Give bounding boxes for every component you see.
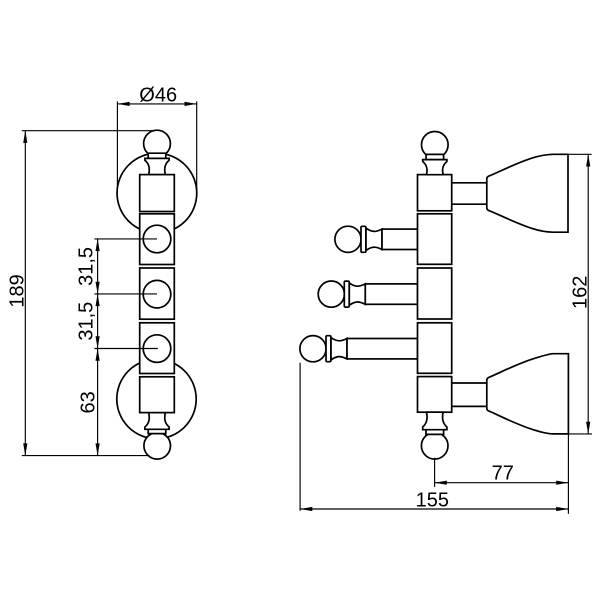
chain leader hook 2 xyxy=(94,293,157,295)
dim 162 extension line bottom xyxy=(568,433,592,435)
hook peg 1 neck xyxy=(366,228,382,250)
svg-text:Ø46: Ø46 xyxy=(139,85,177,107)
wall plate circle top xyxy=(117,153,197,233)
svg-text:31,5: 31,5 xyxy=(75,302,97,341)
side finial neck top xyxy=(423,160,447,175)
finial neck bottom xyxy=(145,413,169,430)
hook peg 1 stem xyxy=(382,229,418,249)
arrow 189 top xyxy=(23,131,27,143)
chain dimension line 31,5/31,5/63 xyxy=(97,239,99,456)
wall bracket top trumpet flange xyxy=(487,154,568,232)
finial collar bottom xyxy=(148,429,166,434)
dim 77/155 extension line right xyxy=(567,434,569,514)
wall bracket bottom stem xyxy=(452,383,488,406)
svg-text:162: 162 xyxy=(570,276,592,309)
rail segment 3 (hook square 2) xyxy=(140,268,175,319)
dim 162 extension line top xyxy=(568,153,592,155)
hook peg 3 bead xyxy=(326,336,331,362)
side rail segment 3 xyxy=(418,268,452,319)
dim Ø46 dimension line xyxy=(117,103,196,105)
dim 155 dimension line xyxy=(300,508,568,510)
dim 162 dimension line xyxy=(587,154,589,434)
hook boss circle 1 xyxy=(143,225,171,253)
arrow 155 right xyxy=(556,507,568,511)
finial neck top xyxy=(145,158,169,174)
wall bracket bottom trumpet flange xyxy=(487,354,569,434)
side rail segment 1 xyxy=(418,175,452,211)
arrow chain up at hook1 xyxy=(96,239,100,251)
hook peg 1 ball xyxy=(335,226,361,252)
dim 77 dimension line xyxy=(435,482,569,484)
finial ball bottom xyxy=(144,433,171,460)
hook peg 2 bead xyxy=(344,281,349,307)
arrow Ø46 left xyxy=(117,102,129,106)
side finial collar bottom xyxy=(426,430,444,435)
wall plate circle bottom xyxy=(117,359,196,438)
hook peg 2 neck xyxy=(349,283,365,305)
svg-text:189: 189 xyxy=(7,274,29,307)
finial collar top xyxy=(148,153,166,158)
chain leader hook 3 xyxy=(94,348,157,350)
hook peg 3 ball xyxy=(300,336,326,362)
rail segment 2 (hook square 1) xyxy=(140,214,175,265)
dim 189 extension line bottom xyxy=(22,455,150,457)
hook boss circle 2 xyxy=(143,280,171,308)
arrow chain up at hook3 xyxy=(96,349,100,361)
dim Ø46 extension line left xyxy=(116,101,118,193)
side finial collar top xyxy=(426,154,444,159)
finial ball top xyxy=(144,130,171,157)
svg-text:31,5: 31,5 xyxy=(75,247,97,286)
rail segment 5 (plain) xyxy=(140,377,175,413)
arrow 189 bottom xyxy=(23,443,27,455)
dim 189 extension line top xyxy=(22,130,155,132)
side rail segment 2 xyxy=(418,214,452,264)
rail segment 1 (plain) xyxy=(140,175,175,212)
dim 77 extension line left xyxy=(434,458,436,487)
side finial neck bottom xyxy=(423,412,447,430)
arrow chain down at hook3 xyxy=(96,336,100,348)
arrow chain down at bottom xyxy=(96,443,100,455)
arrow 77 left xyxy=(435,481,447,485)
dim Ø46 extension line right xyxy=(196,101,198,193)
side rail segment 4 xyxy=(418,323,452,374)
side finial ball top xyxy=(422,132,449,159)
hook peg 3 neck xyxy=(331,338,347,360)
chain leader hook 1 xyxy=(94,238,157,240)
arrow 77 right xyxy=(556,481,568,485)
wall bracket top stem xyxy=(452,183,488,204)
dim 155 extension line left xyxy=(299,363,301,511)
hook peg 2 stem xyxy=(365,284,417,304)
svg-text:63: 63 xyxy=(78,391,100,413)
rail segment 4 (hook square 3) xyxy=(140,323,175,374)
arrow 162 top xyxy=(586,154,590,166)
arrow 155 left xyxy=(300,507,312,511)
arrow Ø46 right xyxy=(185,102,197,106)
svg-text:77: 77 xyxy=(492,463,514,485)
arrow chain down at hook2 xyxy=(96,282,100,294)
hook peg 2 ball xyxy=(318,281,344,307)
dim 189 dimension line xyxy=(24,131,26,456)
svg-text:155: 155 xyxy=(416,489,449,511)
hook peg 1 bead xyxy=(361,226,366,252)
side rail segment 5 xyxy=(418,377,452,413)
hook boss circle 3 xyxy=(143,335,171,363)
arrow chain up at hook2 xyxy=(96,294,100,306)
hook peg 3 stem xyxy=(347,339,418,359)
arrow 162 bottom xyxy=(586,422,590,434)
side finial ball bottom xyxy=(421,433,448,460)
